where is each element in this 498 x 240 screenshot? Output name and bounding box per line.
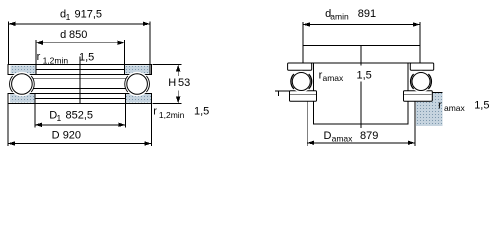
dimension d1: arrows	[9, 22, 16, 26]
washer bottom outline	[8, 93, 152, 103]
svg-text:r: r	[37, 51, 41, 63]
housing shoulder blue block (L-shape)	[416, 92, 442, 126]
dimension Damax: line	[307, 142, 415, 144]
svg-text:H: H	[168, 77, 176, 89]
svg-text:1,5: 1,5	[357, 69, 372, 81]
central rectangle	[313, 63, 408, 124]
svg-text:1,5: 1,5	[474, 100, 489, 112]
groove arcs left ball	[10, 76, 35, 92]
housing line right / blue shoulder	[414, 101, 416, 146]
groove arcs right ball	[411, 74, 432, 89]
dimension D: line	[8, 143, 152, 145]
bore line top-right	[123, 65, 125, 75]
dimension damin: arrows	[303, 22, 310, 26]
svg-text:852,5: 852,5	[66, 110, 94, 122]
svg-text:amax: amax	[444, 103, 466, 113]
svg-text:amin: amin	[330, 12, 349, 22]
dimension d: line	[36, 42, 124, 44]
svg-text:1: 1	[57, 113, 62, 123]
ball left	[12, 74, 33, 95]
ball right	[127, 74, 148, 95]
svg-text:1,2min: 1,2min	[159, 110, 185, 120]
svg-text:d: d	[60, 29, 66, 41]
ball left	[292, 73, 310, 91]
svg-text:1,2min: 1,2min	[43, 56, 69, 66]
housing line left	[306, 101, 308, 146]
dimension D1: line	[35, 124, 126, 126]
shaft step left	[275, 91, 289, 96]
svg-text:amax: amax	[323, 73, 345, 83]
blue section top-right	[124, 65, 149, 73]
washer top outline	[8, 65, 151, 75]
dimension H: extension lines	[152, 64, 181, 66]
raceway line bottom washer	[35, 98, 126, 100]
groove clearance right ball	[410, 71, 432, 93]
groove clearance right ball	[125, 72, 150, 97]
svg-text:D: D	[52, 130, 60, 142]
svg-text:amax: amax	[332, 134, 354, 144]
svg-text:917,5: 917,5	[75, 9, 103, 21]
groove clearance left ball	[10, 72, 35, 97]
abutment plate	[303, 46, 420, 63]
blue section bottom-right	[125, 94, 150, 102]
dimension Damax: arrows	[307, 141, 314, 145]
groove arcs left ball	[291, 74, 312, 89]
washer top-left section	[288, 63, 312, 70]
ball row bottom line	[33, 88, 126, 90]
dimension D1: extension lines	[34, 104, 36, 128]
blue section top-left	[10, 65, 35, 73]
svg-text:r: r	[438, 100, 442, 112]
groove arcs right ball	[125, 76, 150, 92]
dimension d1: line	[9, 23, 150, 25]
dimension D: arrows	[8, 141, 15, 145]
ball row top line	[33, 77, 126, 79]
dimension D1: arrows	[35, 123, 42, 127]
dimension d: arrows	[36, 41, 43, 45]
bore line bottom-right	[124, 93, 126, 103]
svg-text:r: r	[153, 106, 157, 118]
washer bottom-left section	[290, 91, 317, 102]
washer bottom-right section	[404, 91, 433, 102]
dimension d1: extension lines	[8, 21, 10, 64]
center line	[79, 57, 81, 104]
svg-text:891: 891	[358, 8, 376, 20]
svg-text:1: 1	[66, 12, 71, 22]
blue section bottom-left	[10, 94, 35, 102]
svg-text:1,5: 1,5	[79, 52, 94, 64]
svg-text:53: 53	[178, 77, 190, 89]
groove clearance left ball	[291, 71, 313, 93]
bore line top-left	[35, 65, 37, 75]
ball right	[412, 73, 430, 91]
dimension H: arrow lines	[177, 65, 179, 77]
housing shoulder top edge	[432, 91, 442, 93]
washer top-right section	[410, 63, 433, 70]
dimension d: extension lines	[35, 40, 37, 64]
svg-text:920: 920	[63, 130, 81, 142]
raceway line top washer	[36, 69, 124, 71]
center line	[360, 46, 362, 66]
dimension damin: extension lines	[302, 22, 304, 64]
svg-text:D: D	[324, 130, 332, 142]
dimension D: extension lines	[7, 104, 9, 147]
svg-text:879: 879	[360, 130, 378, 142]
dimension damin: line	[303, 24, 420, 26]
svg-text:850: 850	[69, 29, 87, 41]
svg-text:1,5: 1,5	[194, 106, 209, 118]
bore line bottom-left	[34, 93, 36, 103]
